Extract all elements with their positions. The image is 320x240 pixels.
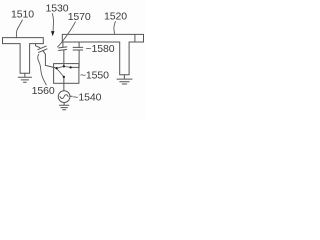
- switch 1550 box: [54, 64, 79, 84]
- capacitor 1580 stub from right radiator: [78, 42, 80, 47]
- capacitor 1580 plates: [73, 47, 83, 50]
- wire stub from left radiator to capacitor 1560: [36, 44, 40, 48]
- divider in right radiator end: [134, 34, 136, 42]
- svg-text:~1550: ~1550: [80, 70, 109, 82]
- leader line label 1570: [58, 22, 76, 47]
- switch contact lines: [57, 66, 71, 77]
- capacitor (diagonal, left branch) plates: [38, 46, 47, 52]
- wire from diagonal capacitor down to switch: [43, 51, 57, 68]
- leader line label 1530: [52, 14, 53, 32]
- antenna element 1520 (right radiator T-shape): [62, 34, 143, 74]
- switch contact node A (top): [63, 65, 65, 67]
- svg-text:1520: 1520: [104, 11, 127, 23]
- ground (right radiator): [117, 75, 132, 84]
- svg-text:1570: 1570: [68, 11, 91, 23]
- signal source 1540 (AC): [58, 91, 70, 103]
- wire source to label 1540: [70, 95, 72, 97]
- switch contact node D (common, bottom): [63, 76, 65, 78]
- arrowhead of 1530 pointer: [51, 31, 55, 36]
- ground (source): [59, 102, 69, 109]
- svg-text:1560: 1560: [32, 85, 55, 97]
- svg-text:1530: 1530: [46, 2, 69, 14]
- switch contact node C (right): [69, 66, 71, 68]
- antenna element 1510 (left radiator T-shape): [3, 38, 44, 74]
- leader line label 1520: [114, 22, 115, 35]
- wire from capacitor 1570 down into switch: [63, 50, 65, 66]
- svg-text:1510: 1510: [11, 9, 34, 21]
- svg-text:~1540: ~1540: [72, 92, 101, 104]
- leader line label 1510: [16, 20, 22, 38]
- leader line label 1560: [38, 54, 47, 85]
- wire switch to source: [63, 77, 65, 91]
- capacitor 1570 (center) stub from right radiator: [62, 42, 64, 47]
- switch contact node B (left): [55, 67, 57, 69]
- capacitor 1570 plates: [59, 47, 67, 51]
- svg-text:~1580: ~1580: [86, 43, 115, 55]
- ground (left radiator): [18, 73, 31, 82]
- wire from capacitor 1580 down to switch: [71, 50, 80, 67]
